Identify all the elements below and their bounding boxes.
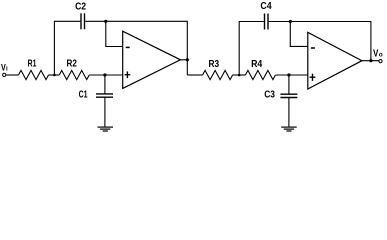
label C3	[264, 90, 275, 101]
capacitor C2	[81, 13, 85, 29]
label R3	[209, 59, 220, 70]
wire R2 to U1 non-inverting input	[89, 74, 123, 76]
label Vo	[373, 48, 383, 59]
wire C3 to ground	[288, 98, 290, 127]
wire top rail right of C4	[269, 21, 371, 23]
label C1	[79, 90, 88, 101]
label R2	[67, 58, 77, 69]
wire node A up to C2 rail	[53, 21, 55, 75]
wire R1 to R2	[49, 74, 60, 76]
capacitor C4	[265, 14, 269, 30]
wire down to C3	[288, 75, 290, 94]
ground 1	[98, 127, 114, 131]
capacitor C1	[96, 94, 113, 97]
wire top rail left of C4	[239, 21, 264, 23]
U1 plus sign	[125, 71, 131, 78]
svg-text:o: o	[379, 51, 383, 58]
wire R4 to U2 non-inverting input	[275, 74, 307, 76]
node junction dot U1 output	[186, 58, 189, 61]
label Vi	[1, 63, 8, 73]
wire down to U1 inverting input	[106, 21, 123, 46]
node B junction dot	[238, 74, 241, 77]
U2 minus sign	[311, 47, 315, 49]
svg-text:R4: R4	[251, 59, 263, 70]
svg-text:R1: R1	[28, 58, 37, 69]
svg-text:C3: C3	[264, 90, 275, 101]
svg-text:C1: C1	[79, 90, 88, 101]
node junction dot minus tap U1	[104, 20, 107, 23]
label R4	[251, 59, 263, 70]
resistor R2	[59, 70, 89, 79]
node junction dot C3 tap	[287, 73, 290, 76]
resistor R3	[203, 70, 233, 79]
op-amp U2	[308, 32, 362, 89]
ground 2	[281, 127, 297, 131]
wire node B up to C4 rail	[238, 22, 240, 76]
svg-text:R2: R2	[67, 58, 77, 69]
node A junction dot	[53, 74, 56, 77]
node junction dot U2 output	[369, 59, 372, 62]
wire U1 output to feedback column	[180, 59, 187, 61]
wire R3 to R4	[233, 74, 246, 76]
wire U1 output to R3	[187, 74, 202, 76]
wire down to C1	[104, 75, 106, 94]
wire Vi to R1	[6, 74, 19, 76]
resistor R1	[19, 70, 49, 79]
wire feedback column stage 1	[186, 21, 188, 75]
input terminal Vi	[3, 73, 6, 76]
svg-text:R3: R3	[209, 59, 220, 70]
resistor R4	[245, 70, 275, 79]
wire C1 to ground	[104, 98, 106, 127]
node junction dot C1 tap	[103, 73, 106, 76]
op-amp U1	[123, 31, 181, 88]
U1 minus sign	[126, 46, 130, 48]
wire top rail right of C2	[85, 20, 187, 22]
U2 plus sign	[310, 74, 316, 81]
output terminal Vo	[379, 60, 382, 63]
svg-text:i: i	[6, 67, 8, 73]
svg-text:C4: C4	[260, 1, 272, 12]
wire U2 output to Vo terminal	[362, 60, 379, 62]
capacitor C3	[280, 94, 297, 97]
node junction dot minus tap U2	[289, 20, 292, 23]
wire feedback column stage 2	[370, 21, 372, 61]
label C2	[75, 1, 86, 12]
label R1	[28, 58, 37, 69]
wire down to U2 inverting input	[290, 22, 308, 47]
svg-text:C2: C2	[75, 1, 86, 12]
wire top rail left of C2	[54, 20, 80, 22]
label C4	[260, 1, 272, 12]
